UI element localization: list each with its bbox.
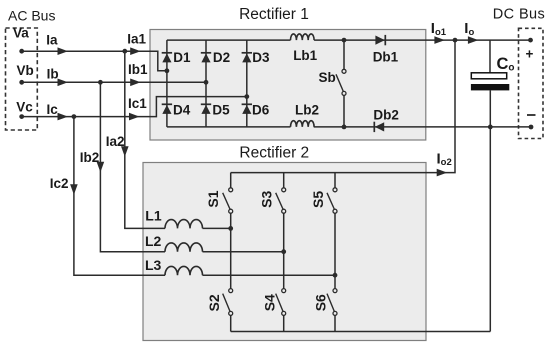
svg-text:DC Bus: DC Bus	[493, 6, 545, 22]
svg-text:Ib1: Ib1	[128, 62, 148, 77]
svg-text:D5: D5	[212, 103, 230, 118]
svg-text:D2: D2	[213, 50, 230, 65]
svg-text:Ic: Ic	[47, 102, 59, 117]
svg-text:Ia: Ia	[46, 32, 58, 47]
svg-text:L1: L1	[145, 208, 162, 224]
svg-text:Db1: Db1	[373, 49, 399, 64]
svg-text:+: +	[526, 47, 534, 62]
svg-text:S1: S1	[205, 190, 221, 207]
svg-text:AC Bus: AC Bus	[8, 7, 55, 23]
svg-text:Lb2: Lb2	[295, 102, 319, 117]
svg-text:Db2: Db2	[373, 107, 399, 122]
svg-text:Rectifier 2: Rectifier 2	[239, 144, 309, 161]
svg-text:D1: D1	[173, 50, 191, 65]
svg-text:S4: S4	[262, 294, 278, 311]
svg-text:S6: S6	[313, 294, 329, 311]
svg-text:D4: D4	[173, 103, 191, 118]
svg-text:Ib: Ib	[47, 67, 59, 82]
svg-text:Va: Va	[13, 26, 29, 41]
svg-text:L3: L3	[145, 257, 162, 273]
svg-text:Lb1: Lb1	[293, 48, 317, 63]
svg-text:Vb: Vb	[17, 63, 34, 78]
svg-text:S2: S2	[206, 294, 222, 311]
svg-text:D3: D3	[252, 50, 270, 65]
svg-text:Ia1: Ia1	[127, 32, 146, 47]
svg-text:S5: S5	[310, 191, 326, 208]
svg-text:Vc: Vc	[16, 100, 33, 115]
svg-text:Ia2: Ia2	[106, 134, 125, 149]
svg-text:S3: S3	[258, 191, 274, 208]
svg-text:Ic1: Ic1	[128, 96, 147, 111]
svg-text:Ib2: Ib2	[80, 150, 100, 165]
svg-text:Rectifier 1: Rectifier 1	[239, 6, 309, 23]
svg-text:Sb: Sb	[319, 70, 336, 85]
svg-text:D6: D6	[252, 103, 270, 118]
svg-text:L2: L2	[145, 233, 162, 249]
svg-text:Ic2: Ic2	[50, 176, 69, 191]
